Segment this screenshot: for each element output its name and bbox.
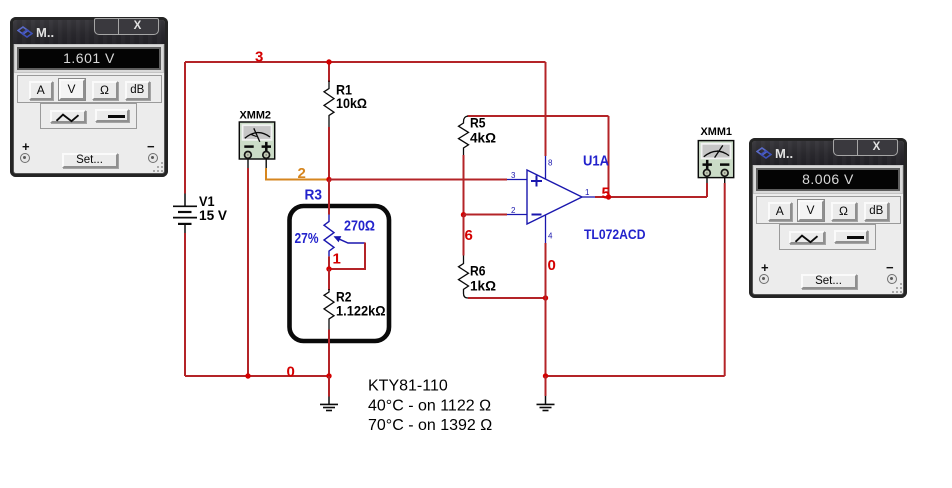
svg-text:1kΩ: 1kΩ [470,278,496,294]
svg-text:1: 1 [333,251,341,268]
svg-text:27%: 27% [295,231,319,247]
value label R3 270 ohm [344,219,375,235]
wire node2 to op-amp pin3 [329,179,507,181]
node 1 label [333,251,341,268]
junction pin4 line at bus [543,373,548,378]
wire bottom bus right segment (net 0) [546,375,725,377]
pin 2 stub [507,214,527,216]
value label R6 [470,263,496,294]
annotation text KTY81-110 [368,378,492,435]
wire pot bottom to node 1 [328,256,330,269]
svg-text:R5: R5 [470,115,486,131]
wire ground stub right [545,376,547,396]
wire V1 top riser (net 3) [184,62,186,194]
wire node6 to pin2 [464,214,508,216]
wire feedback drop to output (net 5) [608,116,610,197]
svg-text:XMM1: XMM1 [701,126,733,138]
resistor R5 [459,116,469,155]
svg-text:0: 0 [287,364,295,381]
svg-text:4kΩ: 4kΩ [470,130,496,146]
pin 4 number [548,232,553,241]
wire XMM2 plus to node (net 2, orange) [266,168,329,180]
junction node 2 [326,177,331,182]
wire pin4 down to bus (net 0) [545,243,547,376]
pin 1 stub (output) [582,196,595,198]
ground (left) [320,397,338,411]
multimeter icon XMM1 [698,126,733,183]
svg-text:6: 6 [465,227,473,244]
svg-text:3: 3 [511,171,516,180]
junction R1 top [326,59,331,64]
svg-text:R3: R3 [305,188,323,204]
wire R1 bottom (net 2) [328,127,330,180]
ground (right) [537,396,555,411]
svg-text:XMM2: XMM2 [240,109,272,121]
junction R2 at bus [326,373,331,378]
svg-text:0: 0 [548,257,556,274]
pin 8 stub [545,156,547,179]
resistor R6 [459,256,469,299]
value label R2 [336,289,386,319]
node 5 label [602,186,611,203]
node 0 label at pin4 [548,257,556,274]
wire wiper loop (net 1) [329,243,365,270]
value label R5 [470,115,496,146]
wire V1 bottom riser (net 0) [184,233,186,376]
svg-text:1.122kΩ: 1.122kΩ [336,302,386,318]
svg-text:KTY81-110: KTY81-110 [368,378,448,395]
svg-text:8: 8 [548,159,553,168]
potentiometer enclosure box [290,206,390,341]
svg-text:70°C - on 1392 Ω: 70°C - on 1392 Ω [368,417,492,434]
svg-text:3: 3 [255,49,263,66]
svg-text:R6: R6 [470,263,486,279]
pin 1 number [585,188,590,197]
pin 3 number [511,171,516,180]
multimeter XMM2 instrument window (reading 1.601 V) [10,17,168,177]
junction XMM2 minus at bus [245,373,250,378]
svg-text:40°C - on 1122 Ω: 40°C - on 1122 Ω [368,398,491,415]
part label U1A [583,154,609,170]
wire XMM1 minus riser (net 0) [724,183,726,376]
pin 3 stub [507,179,527,181]
multimeter XMM1 instrument window (reading 8.006 V) [749,138,907,298]
svg-text:10kΩ: 10kΩ [336,95,367,111]
wire ground stub left [328,376,330,397]
node 3 label [255,49,263,66]
value label R1 [336,82,367,112]
wire R6 bottom to pin4 line (net 0) [468,297,546,299]
pin 4 stub [545,215,547,243]
wire XMM2 minus down to ground bus (net 0) [247,168,249,376]
wire net 3 top bus [185,61,546,63]
battery V1 [173,194,197,234]
wire node6 down to R6 [463,215,465,256]
wire R5 top feedback (net 5) [468,115,609,117]
junction output node 5 [606,194,611,199]
value label V1 [199,193,228,223]
setting label 27% [295,231,319,247]
junction R6/pin4 [543,295,548,300]
resistor R2 [324,289,334,330]
svg-text:TL072ACD: TL072ACD [584,226,646,242]
resistor R1 [324,81,334,128]
multimeter icon XMM2 [239,109,274,168]
wire pin8 drop (net 3) [545,62,547,156]
junction node 1 [326,266,331,271]
svg-text:2: 2 [511,206,516,215]
part label TL072ACD [584,226,646,242]
node R3 label [305,188,323,204]
pin 8 number [548,159,553,168]
svg-text:270Ω: 270Ω [344,219,375,235]
node 0 label bottom [287,364,295,381]
wire bottom bus left segment (net 0) [185,375,329,377]
junction node 6 [461,212,466,217]
wire R1 top lead (net 3) [328,62,330,82]
wire R5 bottom to node 6 [463,155,465,215]
svg-text:U1A: U1A [583,154,609,170]
node 6 label [465,227,473,244]
wire node1 to R2 (net 1) [328,269,330,290]
pin 2 number [511,206,516,215]
wire XMM1 plus drop (net 5) [706,183,708,197]
op-amp U1A [527,170,582,224]
svg-text:2: 2 [298,165,306,182]
wire R2 bottom to bus (net 0) [328,330,330,377]
potentiometer R3 [324,215,365,257]
wire node2 down into pot (net 2) [328,180,330,215]
svg-text:4: 4 [548,232,553,241]
svg-text:1: 1 [585,188,590,197]
svg-text:5: 5 [602,186,611,203]
svg-text:15 V: 15 V [199,207,228,223]
node 2 label [298,165,306,182]
wire output to XMM1 (net 5) [595,196,707,198]
